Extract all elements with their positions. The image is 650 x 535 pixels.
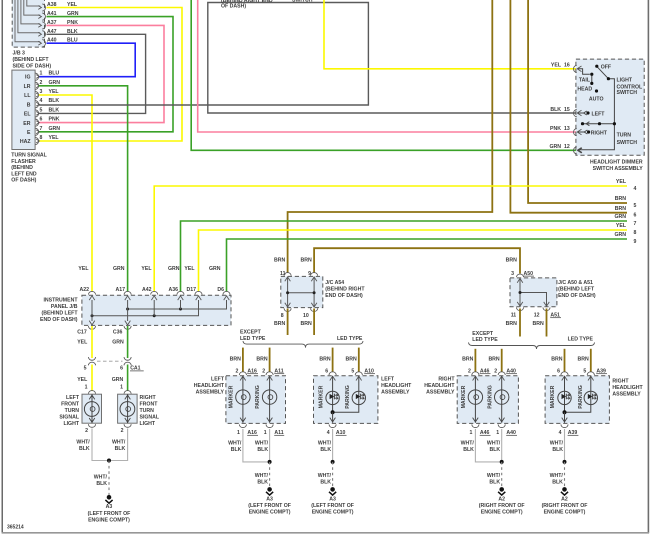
left headlight bottom pin arcs [239,424,273,427]
marker bulb right headlight [468,376,482,423]
svg-text:A3: A3 [106,504,113,510]
svg-text:10: 10 [303,313,309,319]
svg-text:GRN: GRN [614,214,626,220]
svg-text:6: 6 [120,366,123,372]
wire WHT/BLK to ground A3 left headlight [269,462,271,487]
svg-text:BRN: BRN [551,356,562,362]
svg-text:BRN: BRN [301,321,312,327]
wire PNK from top to dimmer pin 13 [198,0,576,132]
ground point A3 turn lights [88,495,131,524]
wire WHT/BLK A39 down [564,429,566,462]
svg-text:1: 1 [264,430,267,436]
wire GRN instrument panel A36 to right edge exit 7 [181,221,628,292]
svg-text:(BEHIND: (BEHIND [11,165,33,171]
left front turn signal light label [59,395,79,427]
svg-text:5: 5 [40,107,43,113]
svg-text:BLK: BLK [489,479,500,485]
svg-text:TURN: TURN [140,408,155,414]
svg-text:2: 2 [262,368,265,374]
svg-text:GRN: GRN [168,266,180,272]
wire BLK flasher B loop to headlight dimmer pin 15 [39,3,576,114]
junction connector J/C A54 box [281,276,323,307]
turn switch contact dots [581,111,616,133]
svg-text:(RIGHT FRONT OF: (RIGHT FRONT OF [542,503,588,509]
ground point A2 right headlight [479,487,525,515]
WHT/BLK label right turn [112,439,126,452]
svg-text:6: 6 [634,213,637,219]
svg-text:TURN SIGNAL: TURN SIGNAL [11,153,47,159]
right headlight bottom pin arcs [472,424,506,427]
connector label CA1 [130,366,144,372]
wire WHT/BLK A40 to junction [501,429,503,462]
svg-text:7: 7 [40,126,43,132]
svg-text:WHT/: WHT/ [76,439,90,445]
svg-text:B: B [27,102,31,108]
left headlight pin 1 A11 label [264,430,284,436]
svg-text:BLK: BLK [257,447,268,453]
svg-text:GRN: GRN [614,232,626,238]
left LED headlight top pin arcs [329,372,362,381]
svg-text:GRN: GRN [49,80,61,86]
svg-text:SIGNAL: SIGNAL [59,415,79,421]
svg-text:GRN: GRN [112,377,124,383]
svg-text:OF DASH): OF DASH) [11,178,36,184]
WHT/BLK label right LED ground [550,473,564,486]
svg-text:LIGHT: LIGHT [63,421,79,427]
J/C A50 internal wiring [519,278,547,306]
right turn light pin 1 [120,384,131,393]
wire YEL from top to dimmer pin 16 [324,0,576,69]
right edge exit label YEL 8 [616,223,637,236]
right LED bottom pin arc [561,424,568,427]
right LED top pin arcs [561,372,595,381]
wire WHT/BLK left turn to junction [92,429,109,461]
svg-text:ENGINE COMPT): ENGINE COMPT) [249,510,291,516]
svg-text:A36: A36 [168,287,178,293]
wire WHT/BLK A11 to junction [269,429,271,462]
svg-text:LEFT: LEFT [592,111,606,117]
instrument panel top pin arcs and arrows [88,291,230,300]
wire YEL instrument panel A42 to right edge exit 4 [154,186,627,292]
svg-text:16: 16 [564,63,570,69]
svg-text:2: 2 [40,80,43,86]
dimmer pin 16 label YEL 16 [551,63,570,69]
svg-text:15: 15 [564,107,570,113]
svg-text:1: 1 [120,384,123,390]
right headlight top pin arcs [472,372,506,381]
wire BRN J/C A51 pin 11 stub [519,309,521,337]
right front turn signal light label [140,395,160,427]
left turn light pin 2 [85,424,95,434]
svg-text:5: 5 [634,203,637,209]
svg-text:BLK: BLK [79,446,90,452]
svg-text:LEFT: LEFT [211,377,225,383]
ground point A2 right LED headlight [542,487,588,515]
wire GRN A41 to flasher E [39,17,173,132]
svg-text:BLK: BLK [463,447,474,453]
svg-text:BLK: BLK [320,479,331,485]
svg-text:2: 2 [85,428,88,434]
svg-text:BRN: BRN [274,321,285,327]
J/B 3 block label [13,51,52,70]
svg-text:LED TYPE: LED TYPE [337,336,363,342]
svg-text:BRN: BRN [274,258,285,264]
svg-text:WHT/: WHT/ [112,439,126,445]
svg-text:6: 6 [40,117,43,123]
junction block J/B 3 box [12,0,44,47]
svg-text:1: 1 [85,384,88,390]
instrument panel block label [40,298,78,324]
svg-text:RIGHT: RIGHT [591,130,608,136]
J/C A50 pin 3 label [511,271,534,277]
svg-text:BLK: BLK [320,447,331,453]
svg-text:END OF DASH): END OF DASH) [325,293,363,299]
svg-text:(RIGHT FRONT OF: (RIGHT FRONT OF [479,503,525,509]
svg-text:WHT/: WHT/ [550,441,564,447]
wire to bottom pin 4 right LED [562,412,568,423]
svg-text:GRN: GRN [549,144,561,150]
svg-text:LEFT END: LEFT END [11,171,37,177]
left turn light pin 1 [85,384,96,393]
svg-text:YEL: YEL [49,89,60,95]
J/B 3 pin arcs [42,4,45,47]
wire WHT/BLK to ground A2 right headlight [501,462,503,487]
left headlight assembly label (except LED) [194,377,225,396]
svg-text:WHT/: WHT/ [487,473,501,479]
svg-text:BRN: BRN [578,356,589,362]
svg-text:HEADLIGHT: HEADLIGHT [612,385,643,391]
svg-text:5: 5 [351,368,354,374]
flasher pin arcs [35,73,39,145]
svg-text:11: 11 [511,312,517,318]
svg-text:A2: A2 [498,496,505,502]
svg-text:BLU: BLU [49,71,60,77]
svg-text:WHT/: WHT/ [550,473,564,479]
svg-text:END OF DASH): END OF DASH) [558,293,596,299]
svg-text:ASSEMBLY: ASSEMBLY [612,392,641,398]
wire BRN stub to right LED headlight pin 5 [590,349,592,372]
svg-text:5: 5 [583,368,586,374]
svg-text:BRN: BRN [319,356,330,362]
svg-text:BLK: BLK [115,446,126,452]
wire YEL flasher LL to instrument panel A22 [39,95,92,292]
wire WHT/BLK right turn to junction [109,429,128,461]
svg-text:E: E [27,130,31,136]
svg-text:BLK: BLK [550,107,561,113]
parking LED right headlight [565,376,598,412]
in-line connector CA1 left half [88,357,95,365]
svg-text:BRN: BRN [462,356,473,362]
left LED headlight assembly label [381,377,412,396]
svg-text:MARKER: MARKER [461,385,467,408]
svg-text:6: 6 [557,368,560,374]
junction dot inside right LED box [563,410,567,414]
label LIGHT CONTROL SWITCH [617,77,643,96]
svg-text:LED TYPE: LED TYPE [240,336,266,342]
svg-text:1: 1 [237,430,240,436]
svg-text:2: 2 [121,428,124,434]
WHT/BLK label A39 [550,441,564,454]
top clipped label fragment OF DASH [221,0,273,10]
svg-text:SIDE OF DASH): SIDE OF DASH) [13,64,52,70]
svg-text:EXCEPT: EXCEPT [472,331,494,337]
svg-text:LED TYPE: LED TYPE [472,337,498,343]
wire BRN stub to left LED headlight pin 5 [358,348,360,372]
left headlight assembly box (except LED) [226,376,286,424]
svg-text:YEL: YEL [49,135,60,141]
svg-text:HEADLIGHT: HEADLIGHT [424,383,455,389]
svg-text:BLK: BLK [231,447,242,453]
svg-text:BLK: BLK [490,447,501,453]
left LED headlight pin 5 A10 label [351,368,375,374]
wire GRN instrument panel D6 to right edge exit 9 [227,239,628,292]
light control switch contact dots [590,65,610,93]
svg-text:WHT/: WHT/ [318,441,332,447]
J/C A54 internal wiring [286,277,316,307]
marker LED left headlight [326,376,339,412]
svg-text:8: 8 [634,230,637,236]
svg-text:365214: 365214 [7,525,24,531]
dimmer pin 12 arc and arrow [574,147,582,154]
junction dot inside left LED box [331,410,335,414]
connector CA1 dashed link [97,360,123,362]
svg-text:TURN: TURN [65,408,80,414]
wire YEL A38 to flasher HAZ [39,8,182,142]
svg-text:ASSEMBLY: ASSEMBLY [196,390,225,396]
wire GRN from top to dimmer pin 12 [191,0,576,150]
wire BRN J/C A54 pin 8 stub [287,309,289,336]
svg-text:LEFT: LEFT [66,395,80,401]
J/C A54 pin arcs top [284,273,318,282]
wire to bottom pin 4 left LED [330,412,336,423]
turn signal flasher box [12,70,35,149]
dimmer pin 15 arc and arrow [574,110,582,117]
svg-text:WHT/: WHT/ [255,473,269,479]
svg-text:GRN: GRN [113,266,125,272]
svg-text:YEL: YEL [78,266,89,272]
wire BRN stub to left LED headlight pin 6 [332,348,334,372]
right turn light pin 2 [121,424,132,434]
svg-text:LEFT: LEFT [381,377,395,383]
wire BLU A40 to flasher IG [39,43,135,76]
svg-text:YEL: YEL [184,266,195,272]
right LED pin 4 A39 label [559,430,579,436]
left LED headlight assembly box [314,376,378,424]
svg-text:12: 12 [564,144,570,150]
svg-text:ASSEMBLY: ASSEMBLY [426,390,455,396]
right group brace [469,342,595,349]
dimmer pin 13 arc and arrow [574,129,582,136]
instrument panel J/B box [82,295,231,325]
svg-text:SIGNAL: SIGNAL [140,415,160,421]
svg-text:GRN: GRN [209,266,221,272]
svg-text:BRN: BRN [256,356,267,362]
WHT/BLK label left headlight ground [255,473,269,486]
WHT/BLK label A46 [461,441,475,454]
svg-text:SWITCH: SWITCH [617,90,638,96]
svg-text:1: 1 [470,430,473,436]
svg-text:A42: A42 [142,287,152,293]
headlight dimmer switch assembly label [590,160,643,172]
instrument panel internal bus line 1 [126,300,226,311]
svg-text:FRONT: FRONT [61,402,80,408]
WHT/BLK label A11 [255,441,269,454]
wire BRN from top to J/C A54 pin 11 [288,0,493,273]
svg-text:(BEHIND LEFT: (BEHIND LEFT [41,311,78,317]
ground point A3 left headlight [248,487,291,515]
svg-text:RIGHT: RIGHT [438,377,455,383]
svg-text:J/C A54: J/C A54 [325,280,344,286]
svg-text:HEADLIGHT: HEADLIGHT [381,383,412,389]
svg-text:A17: A17 [115,287,125,293]
svg-text:HEADLIGHT DIMMER: HEADLIGHT DIMMER [590,160,643,166]
right headlight pin 2 A46 label [468,368,490,374]
svg-text:SWITCH: SWITCH [617,140,638,146]
wire WHT/BLK A16 to junction [243,429,270,462]
svg-text:BRN: BRN [506,321,517,327]
svg-text:BRN: BRN [615,196,626,202]
svg-text:YEL: YEL [616,179,627,185]
right headlight pin 2 A40 label [494,368,517,374]
svg-text:BRN: BRN [615,206,626,212]
svg-text:(BEHIND RIGHT: (BEHIND RIGHT [325,286,365,292]
turn signal flasher block label [11,153,47,184]
svg-text:WHT/: WHT/ [255,441,269,447]
svg-text:8: 8 [281,313,284,319]
svg-text:ENGINE COMPT): ENGINE COMPT) [88,518,130,524]
svg-text:4: 4 [559,430,562,436]
svg-text:YEL: YEL [616,223,627,229]
svg-text:(LEFT FRONT OF: (LEFT FRONT OF [248,503,291,509]
right headlight pin 1 A40 label [496,430,517,436]
svg-text:BLK: BLK [552,447,563,453]
svg-text:BRN: BRN [533,321,544,327]
WHT/BLK label A40 [487,441,501,454]
wire BRN stub to left headlight pin 2 A16 [242,348,244,372]
svg-text:WHT/: WHT/ [487,441,501,447]
J/B 3 internal wires [15,0,40,42]
J/C A50 pin 3 arc and arrow [516,274,523,283]
svg-text:BRN: BRN [488,356,499,362]
dimmer pin 12 label GRN 12 [549,144,569,150]
J/C A51 connector label [550,312,561,318]
svg-text:GRN: GRN [49,126,61,132]
ground point A3 left LED headlight [311,487,354,515]
svg-text:J/C A50 & A51: J/C A50 & A51 [558,280,593,286]
WHT/BLK label A10 [318,441,332,454]
svg-text:D6: D6 [217,287,224,293]
marker LED right headlight [558,376,571,412]
svg-text:WHT/: WHT/ [461,441,475,447]
wire BLK A47 to flasher EL [39,34,146,113]
label EXCEPT LED TYPE right [472,331,498,343]
left headlight pin 2 A11 label [262,368,284,374]
svg-text:LR: LR [24,84,31,90]
junction dot right headlight grounds [500,460,504,464]
svg-text:BLK: BLK [257,479,268,485]
right edge exit label GRN 9 [614,232,636,245]
left headlight pin 1 A16 label [237,430,258,436]
wire YEL connector to left turn signal light [91,365,93,392]
WHT/BLK label left turn [76,439,90,452]
parking LED left headlight [333,376,366,412]
right LED headlight assembly box [545,376,609,424]
svg-text:SWITCH ASSEMBLY: SWITCH ASSEMBLY [593,166,644,172]
svg-text:3: 3 [40,89,43,95]
svg-text:9: 9 [634,239,637,245]
svg-text:12: 12 [534,312,540,318]
svg-text:PARKING: PARKING [255,385,261,409]
svg-text:RIGHT: RIGHT [140,395,157,401]
svg-text:YEL: YEL [77,339,88,345]
instrument panel internal bus line 2 [91,300,199,317]
svg-text:PARKING: PARKING [578,385,584,409]
right headlight pin 1 A46 label [470,430,491,436]
svg-text:PARKING: PARKING [345,385,351,409]
svg-text:OF DASH): OF DASH) [221,4,246,10]
svg-text:LL: LL [24,93,31,99]
left LED pin 4 A10 label [327,430,347,436]
left front turn signal light box [82,394,102,423]
svg-text:BRN: BRN [506,258,517,264]
left headlight top pin arcs [239,372,273,381]
svg-text:MARKER: MARKER [318,385,324,408]
wire BRN from top to right edge exit 6 [510,0,627,213]
svg-text:SWITCH: SWITCH [292,0,313,4]
svg-text:C17: C17 [77,329,87,335]
svg-text:5: 5 [84,366,87,372]
svg-text:BLK: BLK [49,98,60,104]
svg-text:TAIL: TAIL [579,77,591,83]
svg-text:PNK: PNK [550,126,561,132]
dimmer pin 15 label BLK 15 [550,107,570,113]
wire WHT/BLK to ground A2 right LED [564,462,566,487]
svg-text:WHT/: WHT/ [94,475,108,481]
wire GRN C36 to connector CA1 pin 6 [127,326,129,358]
svg-text:BRN: BRN [230,356,241,362]
svg-text:2: 2 [494,368,497,374]
J/C A50 and A51 block label [558,280,596,299]
svg-text:2: 2 [468,368,471,374]
wire BRN J/C A54 pin 10 stub [313,309,315,336]
svg-text:ER: ER [23,121,30,127]
svg-text:RIGHT: RIGHT [612,379,629,385]
dimmer pin 13 label PNK 13 [550,126,570,132]
J/C A50 pin arcs bottom [516,302,550,311]
svg-text:PNK: PNK [49,117,60,123]
svg-text:FRONT: FRONT [140,402,159,408]
svg-text:3: 3 [511,271,514,277]
wire YEL C17 to connector CA1 pin 5 [91,326,93,358]
svg-text:BRN: BRN [301,258,312,264]
instrument panel bottom pin arcs and arrows [88,321,131,330]
wire BRN stub to right headlight pin 2 A40 [501,349,503,372]
svg-text:HEAD: HEAD [577,87,592,93]
right edge exit label YEL 4 [616,179,637,192]
svg-text:(BEHIND LEFT: (BEHIND LEFT [558,286,595,292]
svg-text:13: 13 [564,126,570,132]
svg-text:J/B 3: J/B 3 [13,51,26,57]
instrument panel internal verticals [92,300,181,321]
wire WHT/BLK A46 to junction [475,429,501,462]
right edge exit label BRN 6 [615,206,637,219]
svg-text:MARKER: MARKER [229,385,235,408]
svg-text:YEL: YEL [551,63,562,69]
junction dot turn lights [107,459,111,463]
svg-text:EXCEPT: EXCEPT [240,330,262,336]
left LED bottom pin arc [329,424,336,427]
junction dot A39 ground wire [563,460,567,464]
